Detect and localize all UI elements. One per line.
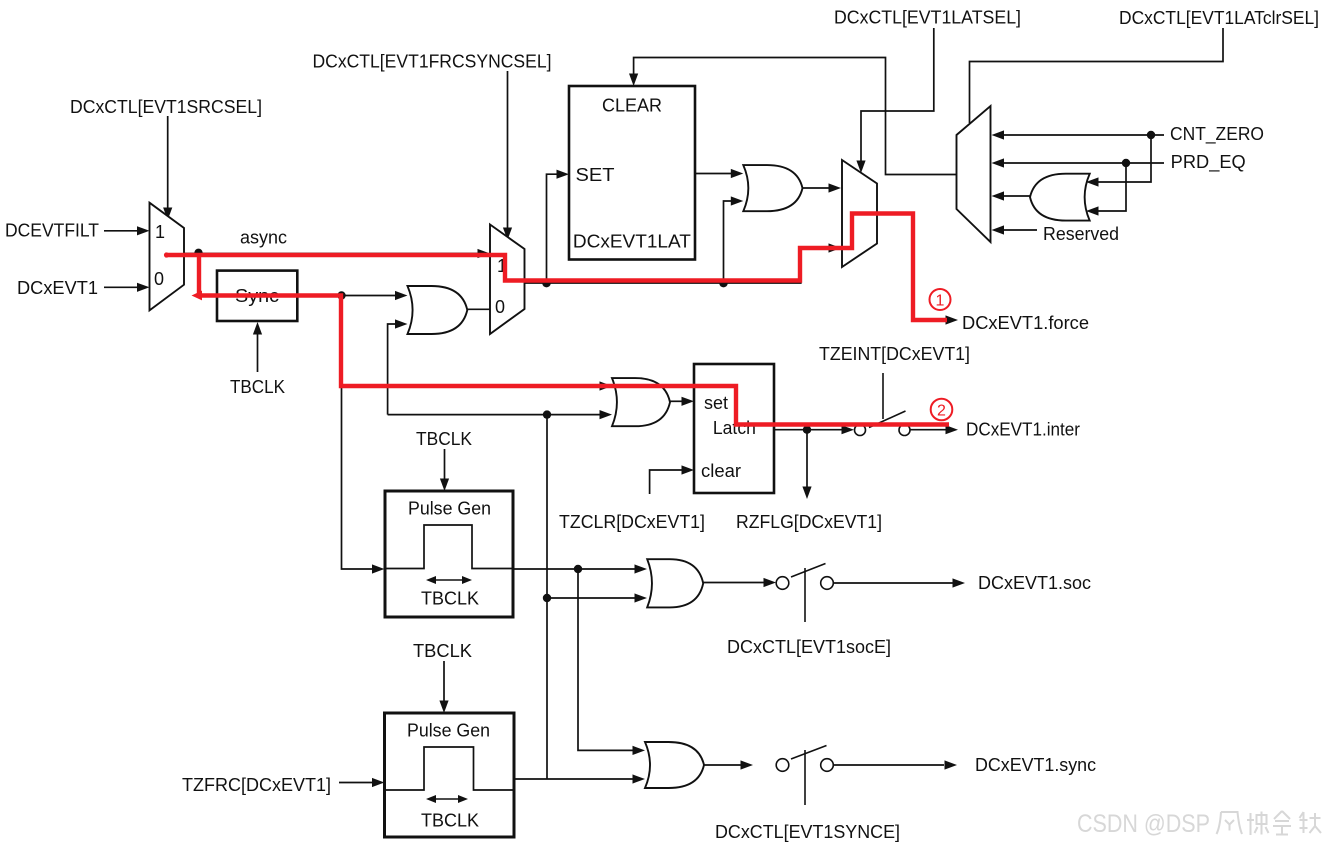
wire J5 up to DCxEVT1LAT SET input <box>547 174 558 283</box>
svg-text:async: async <box>240 228 287 248</box>
svg-text:TZCLR[DCxEVT1]: TZCLR[DCxEVT1] <box>559 512 705 532</box>
pulse width arrow PG1 <box>433 579 465 581</box>
node J9 on latch output <box>803 426 811 434</box>
wire EVT1FRCSYNCSEL select into mux M2 <box>507 71 509 228</box>
or-gate G6 (mirrored) <box>1030 174 1090 221</box>
node J4 force net <box>543 594 551 602</box>
switch SW3 contact b <box>821 759 834 772</box>
svg-text:DCxCTL[EVT1socE]: DCxCTL[EVT1socE] <box>727 637 891 657</box>
wire EVT1LATclrSEL select into mux M4 <box>970 28 1224 123</box>
node J3 force net <box>543 410 551 418</box>
node J7 on CNT_ZERO <box>1147 131 1155 139</box>
or-gate G2 <box>743 165 802 211</box>
wire mux M2 output to mux M3 input 0 <box>525 248 830 283</box>
node J6 on M2 output <box>719 279 727 287</box>
svg-text:DCxCTL[EVT1LATclrSEL]: DCxCTL[EVT1LATclrSEL] <box>1119 8 1319 28</box>
or-gate G4 <box>647 559 703 607</box>
svg-text:Reserved: Reserved <box>1043 224 1119 244</box>
wire SW3 to DCxEVT1.sync <box>834 764 945 766</box>
wire DCxEVT1LAT output to OR gate G2 input 1 <box>695 173 731 175</box>
wire EVT1LATSEL select into mux M3 <box>861 28 934 161</box>
svg-text:Pulse Gen: Pulse Gen <box>407 721 490 741</box>
svg-text:CLEAR: CLEAR <box>602 96 662 116</box>
svg-text:TBCLK: TBCLK <box>416 429 472 449</box>
svg-text:CSDN @DSP: CSDN @DSP <box>1077 810 1210 838</box>
block Pulse Gen PG2 <box>385 713 515 837</box>
wire TZEINT control to SW1 <box>882 373 884 419</box>
node J10 on PG1 output <box>574 565 582 573</box>
svg-text:TZFRC[DCxEVT1]: TZFRC[DCxEVT1] <box>182 775 331 795</box>
wire TBCLK into Sync block <box>257 334 259 372</box>
or-gate G3 <box>612 378 670 426</box>
wire PG1 output to OR G4 input 1 <box>513 568 636 570</box>
wire PRD_EQ branch to OR G6 input 2 <box>1095 163 1126 211</box>
block event latch <box>694 364 774 493</box>
switch SW3 lever <box>791 746 827 760</box>
node J5 on M2 output <box>542 279 550 287</box>
wire force net horizontal to OR G3 input 2 <box>388 414 600 416</box>
wire TBCLK into PG1 <box>444 449 446 480</box>
wire G6 output to mux M4 <box>1000 195 1030 197</box>
node J8 on PRD_EQ <box>1122 159 1130 167</box>
wire PG2 output to OR G5 input 2 <box>514 778 633 780</box>
svg-text:DCxCTL[EVT1FRCSYNCSEL]: DCxCTL[EVT1FRCSYNCSEL] <box>313 51 552 71</box>
svg-text:set: set <box>704 393 728 413</box>
svg-text:TBCLK: TBCLK <box>413 641 472 661</box>
wire TBCLK into PG2 <box>443 661 445 702</box>
node J1 on async wire <box>194 249 202 257</box>
wire SW2 to DCxEVT1.soc <box>834 582 954 584</box>
svg-text:RZFLG[DCxEVT1]: RZFLG[DCxEVT1] <box>736 512 882 532</box>
switch SW1 contact b <box>899 425 910 436</box>
wire mux M3 output to DCxEVT1.force <box>877 214 946 321</box>
svg-text:PRD_EQ: PRD_EQ <box>1171 152 1246 173</box>
svg-text:DCxCTL[EVT1SYNCE]: DCxCTL[EVT1SYNCE] <box>715 822 900 842</box>
wire CNT_ZERO branch to OR G6 input 1 <box>1095 135 1151 182</box>
or-gate G1 <box>408 286 468 334</box>
wire TZFRC to PG2 input <box>339 782 373 784</box>
wire DCxEVT1 to mux M1 input 0 <box>104 286 138 288</box>
switch SW3 contact a <box>776 759 789 772</box>
mux M1 (EVT1SRCSEL) <box>150 203 185 311</box>
wire G1 output to mux M2 input 0 <box>467 308 490 310</box>
mux M2 (EVT1FRCSYNCSEL) <box>490 225 525 335</box>
wire EVT1SRCSEL select into mux M1 <box>167 116 169 208</box>
block Sync <box>217 271 297 321</box>
pulse waveform PG1 <box>385 525 512 569</box>
switch SW1 contact a <box>855 425 866 436</box>
wire G4 output to switch SW2 <box>703 582 764 584</box>
svg-text:DCxEVT1: DCxEVT1 <box>17 278 98 298</box>
wire force net vertical to OR G1 input 2 <box>388 324 396 415</box>
svg-text:0: 0 <box>154 269 164 289</box>
wire G3 output to latch set input <box>670 400 684 402</box>
wire J10 down to OR G5 input 1 <box>578 569 633 750</box>
svg-text:DCxEVT1.inter: DCxEVT1.inter <box>966 420 1080 440</box>
wire Reserved to mux M4 <box>1000 229 1037 231</box>
wire G5 output to switch SW3 <box>704 764 741 766</box>
wire force net down joining Pulse Gen PG2 output <box>546 598 548 779</box>
svg-text:0: 0 <box>495 297 505 317</box>
wire J9 down to RZFLG flag <box>806 430 808 487</box>
svg-text:DCxEVT1.force: DCxEVT1.force <box>962 313 1089 333</box>
wire TZCLR to latch clear input <box>650 470 683 494</box>
switch SW1 lever <box>869 411 906 428</box>
svg-text:TBCLK: TBCLK <box>230 377 285 397</box>
wire red path 2 (inter): J1 through Sync and latch to DCxEVT1.inter <box>199 253 949 425</box>
svg-text:2: 2 <box>937 403 946 420</box>
svg-text:DCxCTL[EVT1SRCSEL]: DCxCTL[EVT1SRCSEL] <box>70 97 262 117</box>
wire J2 branch to OR gate G3 input 1 <box>342 385 601 387</box>
wire EVT1SYNCE control to SW3 <box>804 750 806 805</box>
block DCxEVT1LAT (CLEAR/SET latch) <box>569 86 695 260</box>
switch SW2 contact a <box>776 577 789 590</box>
svg-text:clear: clear <box>701 461 741 481</box>
mux M3 (EVT1LATSEL) <box>842 160 877 267</box>
node red circled 1 marker <box>930 289 951 310</box>
wire mux M4 output to DCxEVT1LAT CLEAR input <box>634 58 957 175</box>
wire J6 up to OR gate G2 input 2 <box>724 201 732 283</box>
svg-text:DCxCTL[EVT1LATSEL]: DCxCTL[EVT1LATSEL] <box>834 8 1021 28</box>
svg-text:TBCLK: TBCLK <box>421 811 479 831</box>
wire red path 1 (force): mux M1 through M2 and M3 to DCxEVT1.force <box>165 214 947 321</box>
pulse waveform PG2 <box>385 747 513 790</box>
wire PRD_EQ to mux M4 <box>1000 162 1164 164</box>
svg-text:TBCLK: TBCLK <box>421 589 479 609</box>
wire Sync output to OR gate G1 input 1 <box>297 295 396 297</box>
svg-text:1: 1 <box>936 293 945 310</box>
svg-text:Pulse Gen: Pulse Gen <box>408 499 491 519</box>
pulse width arrow PG2 <box>433 798 461 800</box>
wire J1 down to Sync block input <box>199 254 218 296</box>
svg-text:1: 1 <box>155 222 165 242</box>
wire SW1 to DCxEVT1.inter <box>910 429 946 431</box>
wire EVT1socE control to SW2 <box>804 568 806 622</box>
svg-text:CNT_ZERO: CNT_ZERO <box>1170 124 1264 145</box>
svg-text:DCxEVT1LAT: DCxEVT1LAT <box>573 232 691 252</box>
wire CNT_ZERO to mux M4 <box>1000 134 1164 136</box>
node red circled 2 marker <box>931 399 953 421</box>
wire latch output to switch SW1 <box>774 429 842 431</box>
switch SW2 contact b <box>821 577 834 590</box>
wire async: mux M1 output to mux M2 input 1 <box>184 253 479 255</box>
mux M4 (EVT1LATclrSEL) <box>957 106 991 242</box>
or-gate G5 <box>645 742 704 788</box>
switch SW2 lever <box>791 564 826 578</box>
svg-text:DCxEVT1.sync: DCxEVT1.sync <box>975 755 1096 775</box>
svg-text:DCxEVT1.soc: DCxEVT1.soc <box>978 573 1091 593</box>
block Pulse Gen PG1 <box>385 491 513 617</box>
svg-text:DCEVTFILT: DCEVTFILT <box>5 221 99 241</box>
wire force net down to OR G4 input 2 <box>547 415 635 598</box>
wire G2 output to mux M3 input 1 <box>803 187 830 189</box>
svg-text:TZEINT[DCxEVT1]: TZEINT[DCxEVT1] <box>819 344 970 364</box>
node J2 on sync output <box>337 291 345 299</box>
wire J2 down to Pulse Gen PG1 input <box>342 296 374 570</box>
wire DCEVTFILT to mux M1 input 1 <box>104 230 138 232</box>
svg-text:SET: SET <box>576 165 615 185</box>
